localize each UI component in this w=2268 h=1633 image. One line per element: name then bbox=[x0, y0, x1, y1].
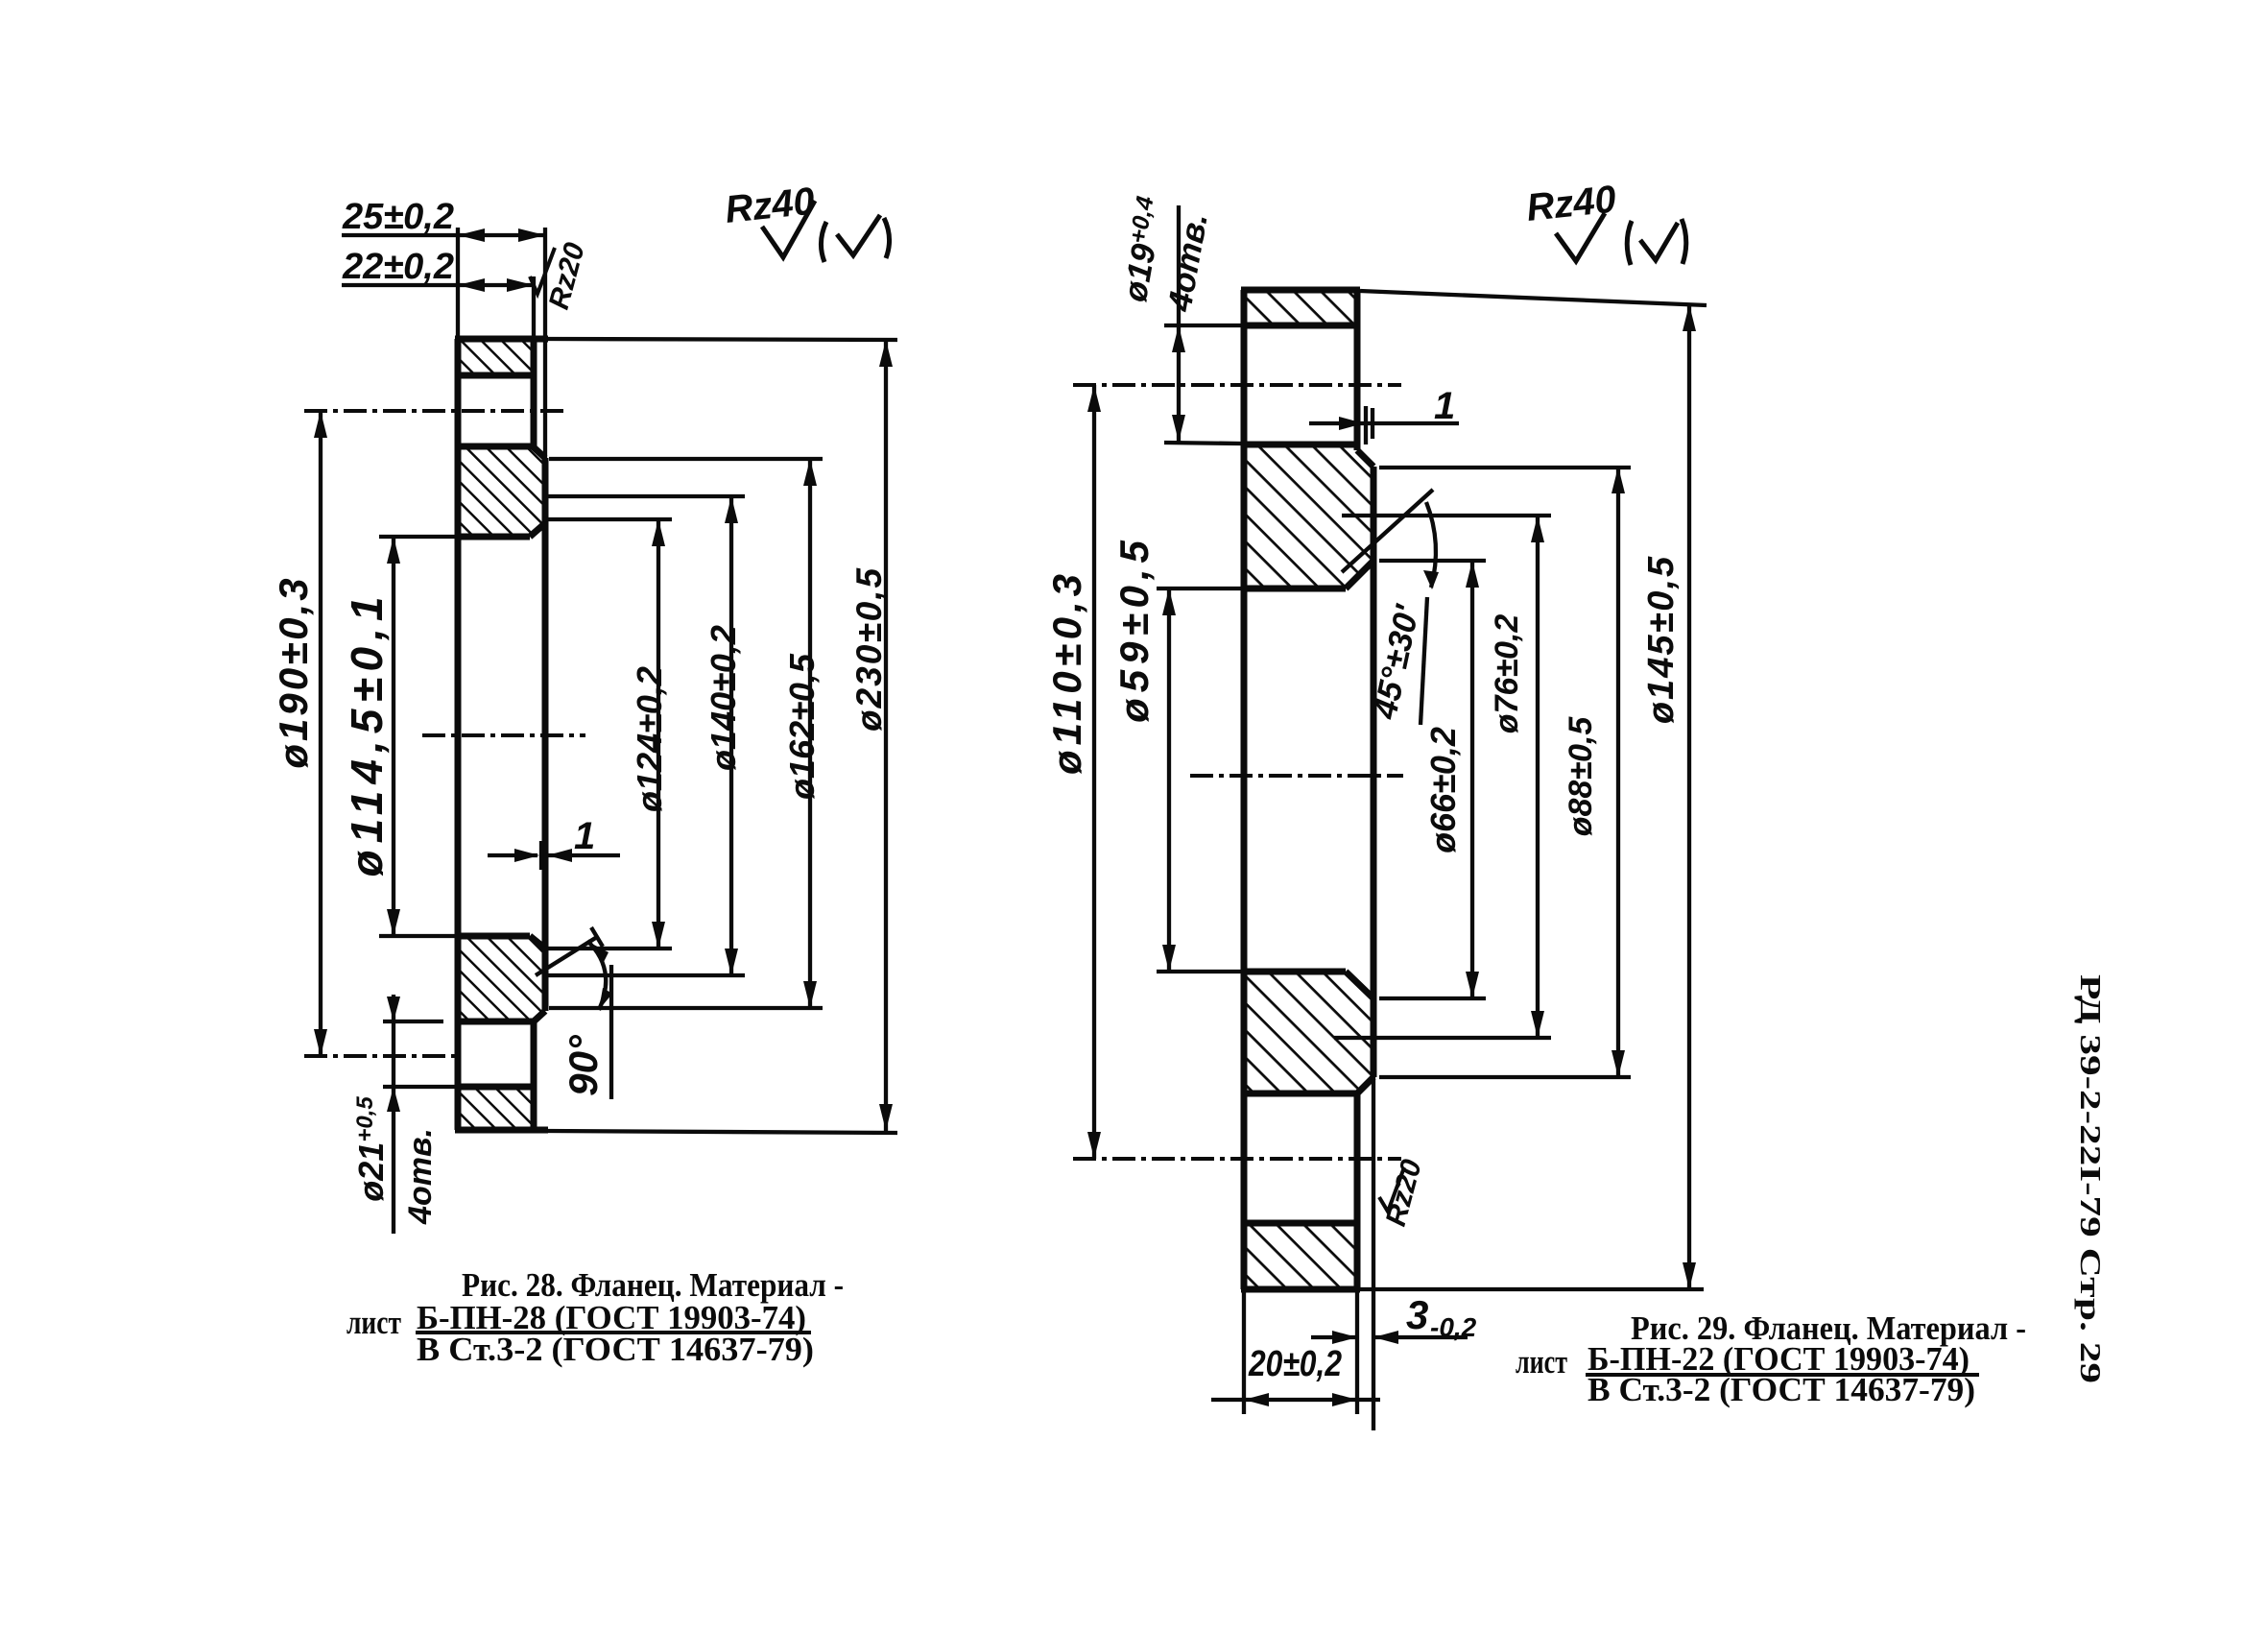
svg-text:20±0,2: 20±0,2 bbox=[1248, 1344, 1342, 1384]
svg-text:4отв.: 4отв. bbox=[402, 1128, 439, 1225]
svg-text:3: 3 bbox=[1406, 1292, 1428, 1337]
svg-text:1: 1 bbox=[1434, 385, 1455, 427]
svg-text:ø76±0,2: ø76±0,2 bbox=[1489, 614, 1525, 734]
svg-text:25±0,2: 25±0,2 bbox=[342, 197, 454, 237]
svg-text:РД 39-2-22I-79 Стр. 29: РД 39-2-22I-79 Стр. 29 bbox=[2074, 974, 2108, 1383]
svg-text:В Ст.3-2 (ГОСТ 14637-79): В Ст.3-2 (ГОСТ 14637-79) bbox=[1588, 1371, 1975, 1408]
svg-text:ø88±0,5: ø88±0,5 bbox=[1563, 716, 1599, 837]
svg-text:ø110±0,3: ø110±0,3 bbox=[1044, 569, 1089, 775]
svg-text:ø59±0,5: ø59±0,5 bbox=[1111, 535, 1157, 723]
svg-text:ø145±0,5: ø145±0,5 bbox=[1641, 555, 1682, 724]
svg-text:ø66±0,2: ø66±0,2 bbox=[1423, 727, 1463, 853]
svg-text:ø190±0,3: ø190±0,3 bbox=[271, 575, 316, 768]
svg-text:В Ст.3-2 (ГОСТ 14637-79): В Ст.3-2 (ГОСТ 14637-79) bbox=[417, 1331, 814, 1368]
svg-text:ø124±0,2: ø124±0,2 bbox=[630, 666, 669, 812]
svg-text:22±0,2: 22±0,2 bbox=[342, 247, 454, 287]
svg-text:ø114,5±0,1: ø114,5±0,1 bbox=[342, 590, 392, 877]
svg-text:ø162±0,5: ø162±0,5 bbox=[782, 653, 822, 800]
svg-text:-0,2: -0,2 bbox=[1430, 1312, 1477, 1342]
svg-text:лист: лист bbox=[1516, 1343, 1567, 1381]
svg-text:ø230±0,5: ø230±0,5 bbox=[849, 566, 889, 732]
svg-text:лист: лист bbox=[346, 1304, 401, 1341]
svg-text:1: 1 bbox=[574, 815, 595, 857]
svg-text:ø140±0,2: ø140±0,2 bbox=[704, 625, 743, 771]
svg-text:90°: 90° bbox=[561, 1034, 606, 1096]
